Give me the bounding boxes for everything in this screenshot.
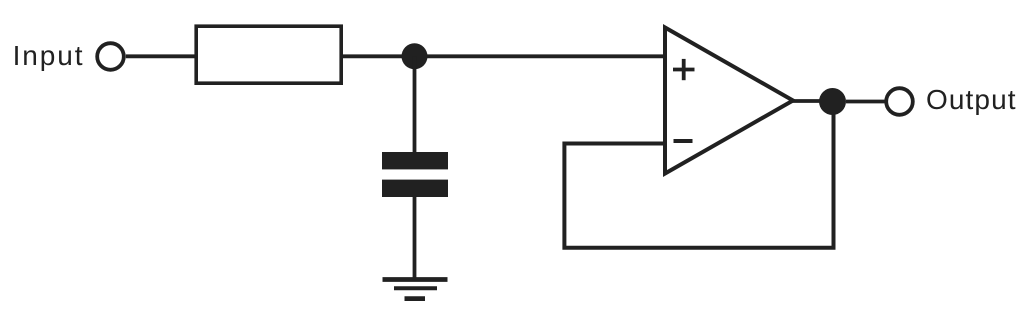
input terminal (97, 43, 124, 70)
resistor R1 (196, 26, 341, 83)
wire input to resistor (126, 54, 197, 58)
wire junction to capacitor (413, 56, 417, 153)
wire op-amp output (792, 99, 833, 103)
ground (383, 280, 448, 299)
capacitor C1 plate top (382, 152, 448, 169)
output node (819, 88, 846, 115)
junction node (402, 43, 428, 69)
wire resistor to op-amp (341, 54, 665, 58)
op-amp plus pin (673, 59, 695, 80)
wire capacitor to ground (413, 196, 417, 280)
op-amp minus pin (674, 139, 693, 143)
feedback wire (564, 102, 833, 248)
wire output node to terminal (846, 100, 886, 104)
svg-text:Output: Output (926, 84, 1017, 115)
output terminal (886, 88, 913, 115)
capacitor C1 plate bottom (382, 180, 448, 197)
svg-text:Input: Input (13, 40, 85, 71)
op-amp U1 (665, 28, 793, 174)
